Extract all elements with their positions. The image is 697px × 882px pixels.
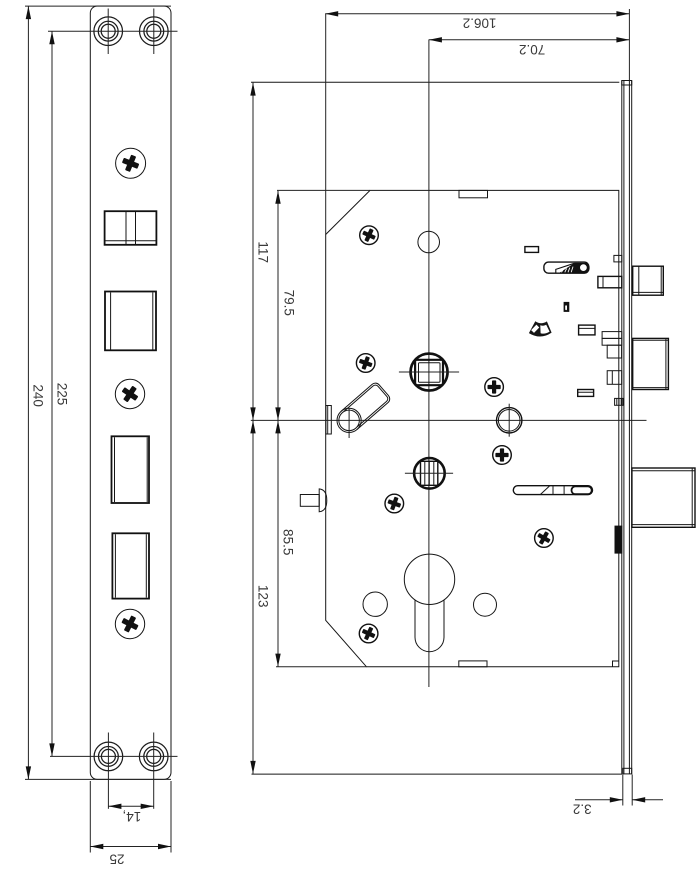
svg-text:79.5: 79.5 (281, 290, 296, 316)
svg-text:25: 25 (109, 852, 124, 867)
phillips screw g (359, 624, 378, 643)
bottom tab (459, 661, 487, 667)
svg-text:240: 240 (31, 384, 46, 407)
rectangular hole 4 (112, 533, 149, 598)
dimension 14 (108, 806, 153, 824)
magnet block (615, 526, 623, 554)
hole circle below top (418, 231, 440, 253)
dimension 79.5 (278, 191, 296, 421)
upper lever pill (544, 262, 589, 273)
top screw centerlines (48, 9, 178, 55)
dimension 117 (253, 83, 271, 421)
case bottom edge (252, 773, 623, 775)
knurled piece (615, 398, 623, 405)
lower pill lever (513, 486, 592, 495)
phillips screw a (360, 226, 379, 245)
bracket flange B (602, 338, 622, 345)
plate top edge extension (277, 189, 370, 191)
phillips screw e (385, 494, 404, 513)
svg-text:117: 117 (255, 241, 270, 263)
dimension 70.2 (429, 40, 630, 57)
svg-text:85.5: 85.5 (280, 529, 295, 555)
top tab (459, 190, 488, 197)
left edge bracket (326, 406, 331, 435)
rectangular hole 3 (112, 436, 150, 503)
small vertical catch (564, 302, 570, 312)
fan wedge (529, 321, 552, 336)
svg-text:3.2: 3.2 (573, 802, 592, 817)
latch bolt (633, 266, 664, 295)
latch tail (598, 276, 622, 287)
side circle right (474, 593, 497, 616)
cylinder fixing circle on centerline (497, 404, 522, 437)
faceplate outline (90, 6, 171, 779)
dimension 25 (90, 781, 171, 867)
case top edge (251, 81, 619, 83)
small rect part upper (525, 247, 539, 253)
svg-text:14,: 14, (123, 809, 142, 824)
latch guide piece (614, 255, 622, 262)
plate bottom edge extension (276, 666, 367, 668)
dimension 123 (253, 420, 270, 774)
tray rect part (579, 325, 595, 335)
flat rect part lower (578, 390, 594, 397)
dimension 240 (25, 6, 171, 779)
vertical centerline (428, 40, 430, 688)
bottom screw hole right (139, 742, 168, 771)
lever arm with lobe (337, 381, 392, 438)
bottom bolt (632, 468, 695, 527)
dimension 106.2 (325, 14, 629, 31)
deadbolt hole (105, 292, 156, 351)
side pin stud (300, 489, 327, 512)
middle bolt (633, 338, 669, 389)
top follower hub (399, 354, 459, 391)
bottom screw centerlines (50, 733, 178, 809)
svg-text:106.2: 106.2 (463, 15, 497, 30)
latch hole (105, 211, 157, 245)
euro cylinder hole (404, 554, 454, 652)
lower guide piece (607, 371, 622, 385)
bottom screw hole left (94, 742, 123, 771)
svg-text:70.2: 70.2 (519, 42, 545, 57)
top screw hole left (94, 17, 123, 46)
dimension 3.2 (573, 775, 663, 817)
vertical extension line 106.2 (325, 14, 327, 235)
side circle left (363, 592, 387, 616)
bracket column C (607, 345, 621, 358)
horizontal centerline (251, 419, 647, 421)
top screw hole right (140, 17, 169, 46)
phillips screw f (535, 529, 554, 548)
dimension 85.5 (278, 420, 295, 666)
phillips screw upper (116, 148, 146, 178)
dimension 225 (52, 31, 70, 756)
phillips screw lower (115, 609, 144, 638)
lower follower hub (405, 458, 453, 489)
svg-text:123: 123 (255, 585, 270, 608)
svg-text:225: 225 (55, 383, 70, 406)
plate bottom right step (613, 661, 619, 667)
phillips screw b (356, 354, 375, 373)
phillips screw middle (115, 379, 144, 408)
right extension line (628, 9, 630, 80)
inner mechanism plate outline (326, 190, 619, 666)
bracket flange A (602, 332, 622, 339)
forend plate side view (622, 81, 632, 774)
phillips screw d (493, 446, 512, 465)
phillips screw c (485, 378, 504, 397)
